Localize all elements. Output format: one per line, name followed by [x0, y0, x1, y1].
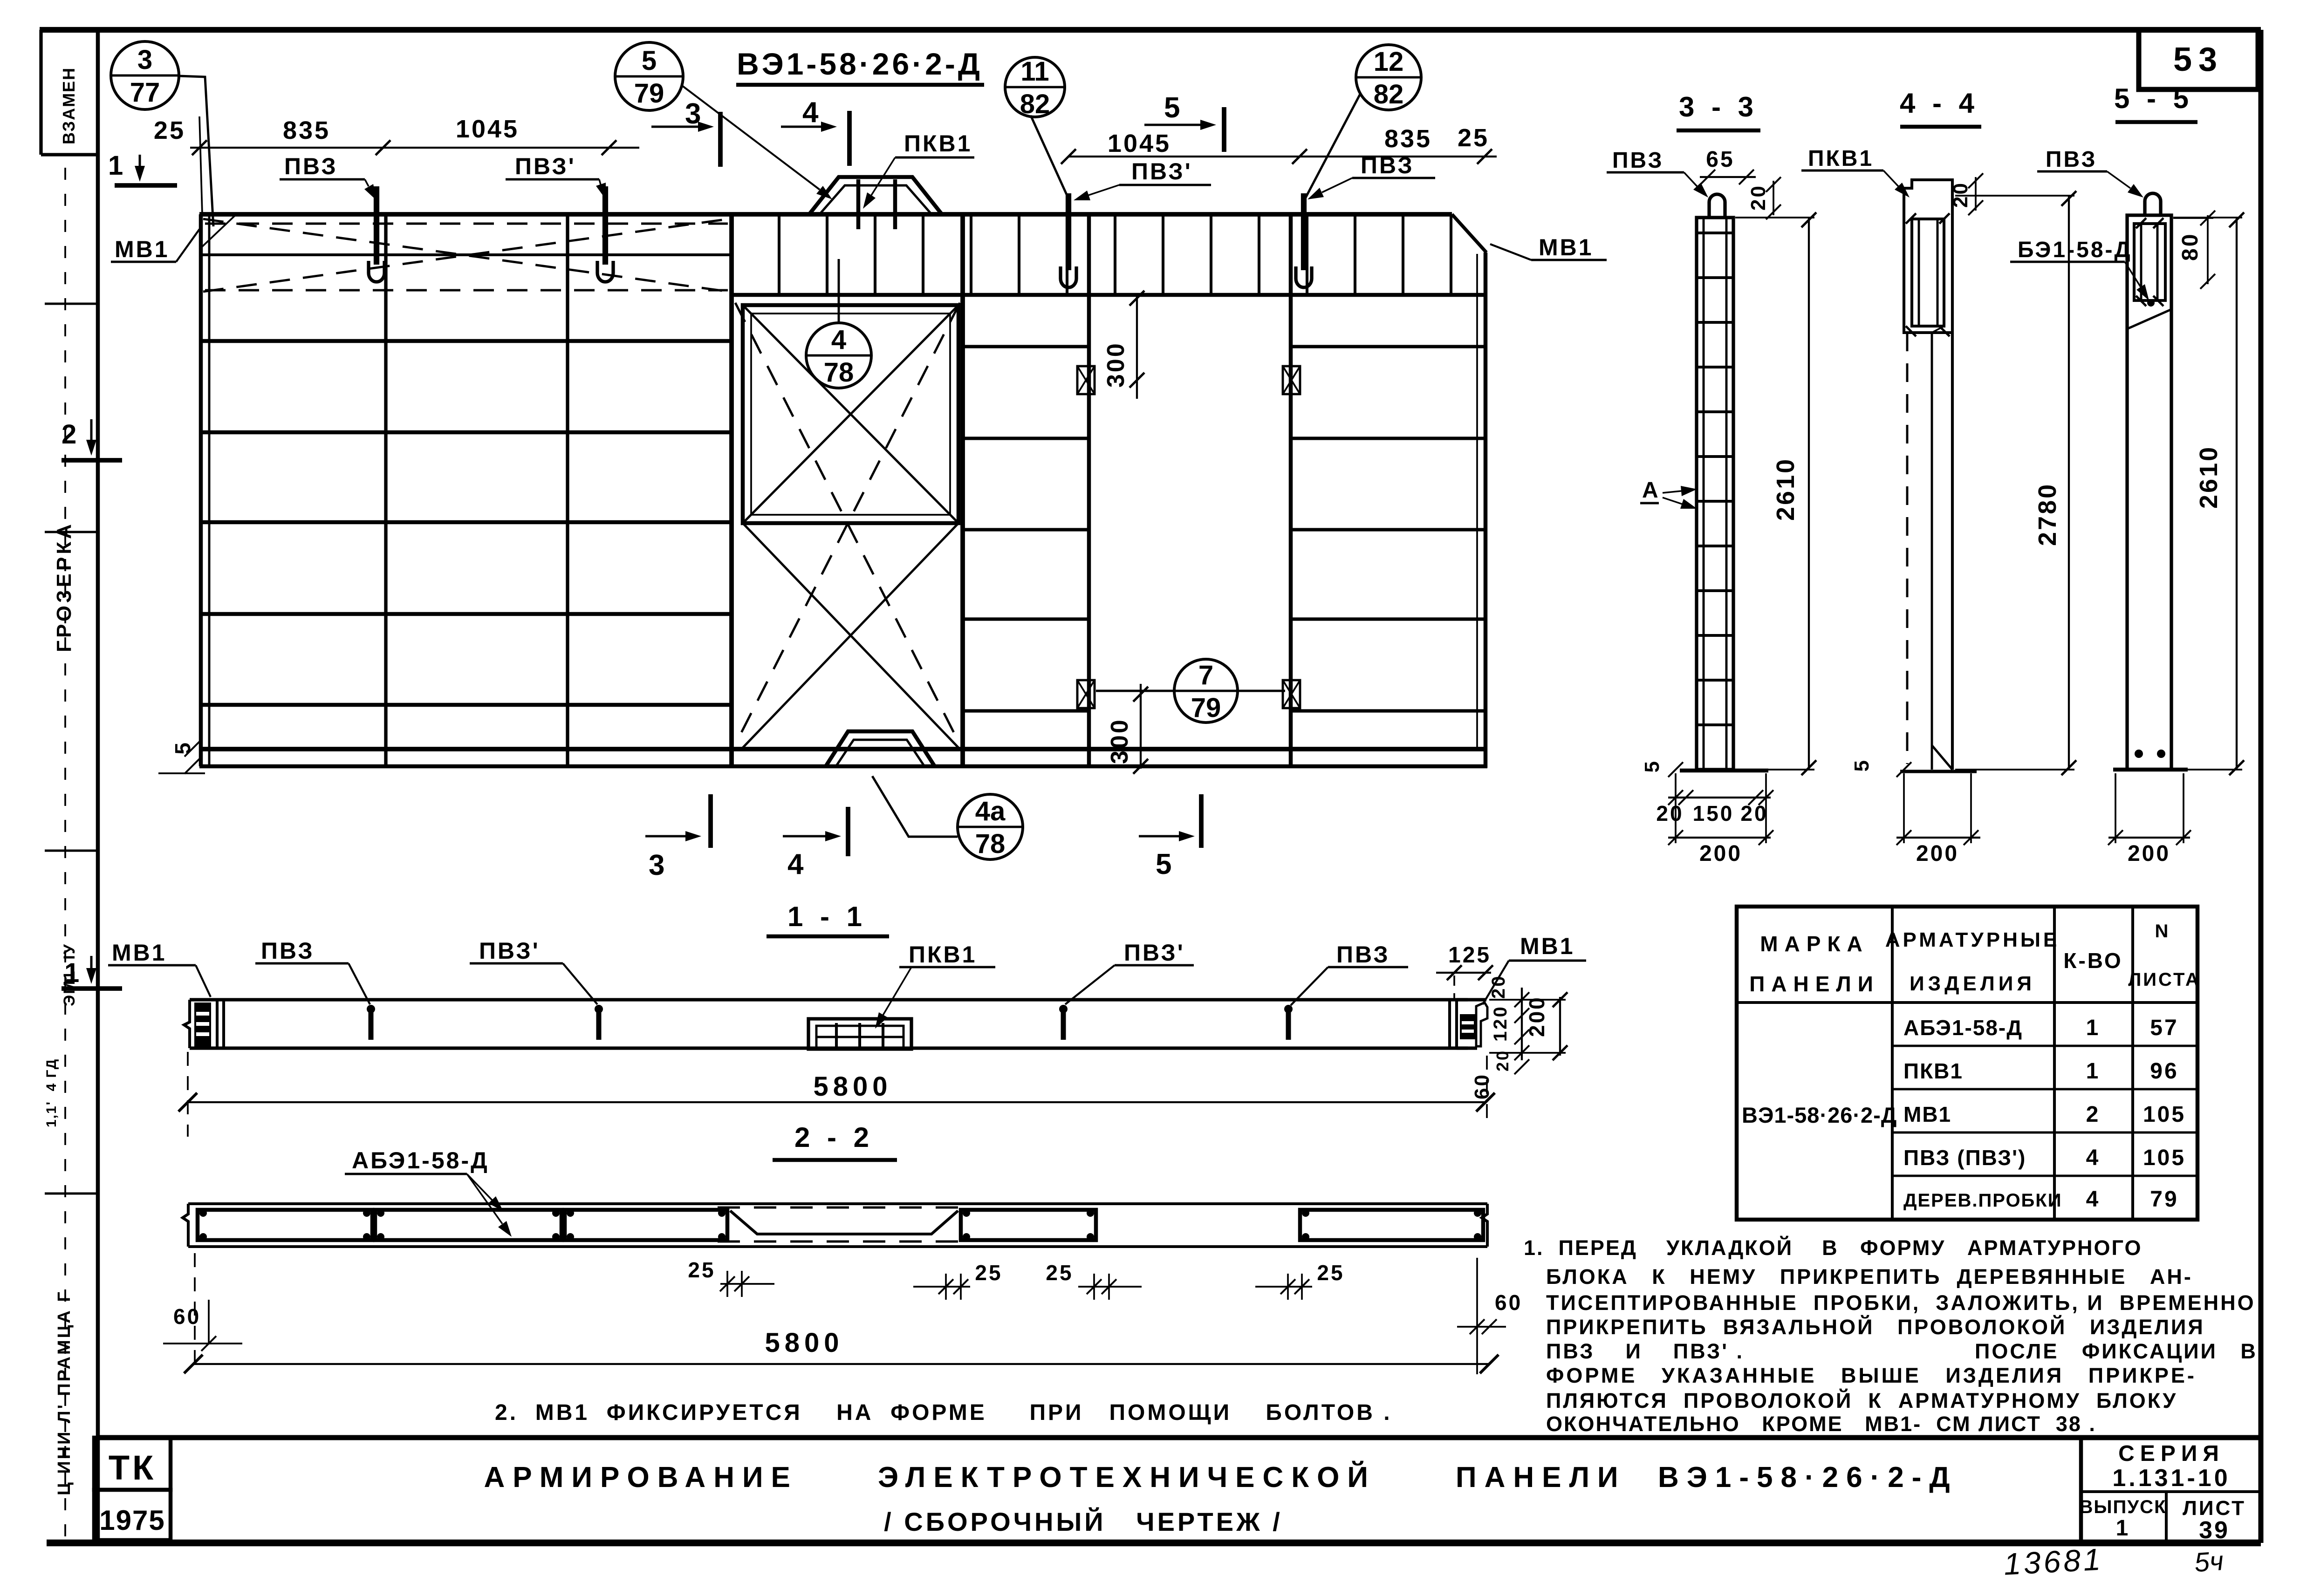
panel left edge inner — [208, 215, 211, 765]
wooden plug symbol — [1283, 366, 1300, 394]
callout 12/82 — [1356, 45, 1421, 110]
table row line 2338 — [1892, 1088, 2197, 1091]
svg-text:N: N — [2155, 921, 2170, 941]
bar 2-2 left cap — [183, 1204, 188, 1247]
svg-text:ТИСЕПТИРОВАННЫЕ ПРОБКИ, ЗАЛО: ТИСЕПТИРОВАННЫЕ ПРОБКИ, ЗАЛОЖИТЬ, И ВРЕМ… — [1546, 1291, 2256, 1315]
MV1 anchor right — [1460, 1014, 1476, 1039]
stirrup — [922, 216, 924, 294]
wooden plug symbol — [1283, 680, 1300, 708]
svg-text:ИЗДЕЛИЯ: ИЗДЕЛИЯ — [1910, 972, 2035, 995]
margin dashed line — [64, 168, 66, 1537]
svg-text:4: 4 — [2086, 1146, 2101, 1170]
svg-text:К-ВО: К-ВО — [2063, 948, 2122, 973]
svg-text:7: 7 — [1198, 660, 1213, 690]
MV1 flag right — [1476, 1003, 1487, 1046]
table col line 1 — [1891, 907, 1894, 1220]
border top — [40, 27, 2261, 33]
leader 12/82 — [1305, 93, 1361, 199]
svg-text:МВ1: МВ1 — [1520, 933, 1575, 959]
svg-text:25: 25 — [688, 1258, 715, 1282]
svg-text:79: 79 — [1191, 693, 1221, 723]
svg-text:ПВЗ И ПВЗ' .: ПВЗ И ПВЗ' . ПОСЛЕ ФИКСАЦИИ В — [1546, 1339, 2258, 1363]
svg-text:57: 57 — [2150, 1016, 2178, 1040]
dim tick — [376, 140, 390, 155]
svg-text:ВЭ1-58·26·2-Д: ВЭ1-58·26·2-Д — [737, 47, 983, 81]
svg-text:1045: 1045 — [1108, 130, 1171, 157]
svg-text:5800: 5800 — [813, 1071, 892, 1102]
left grid bar y1318 — [202, 612, 732, 616]
divider center/right1 — [960, 215, 965, 768]
top dim line left — [190, 147, 639, 149]
grid right y941 — [1291, 437, 1484, 440]
margin tick — [45, 303, 98, 305]
left grid bar y928 — [202, 430, 732, 435]
leader 11/82 — [1031, 116, 1068, 198]
svg-text:4: 4 — [831, 325, 846, 355]
bar 1-1 left double 2 — [222, 1000, 225, 1048]
svg-text:Ц ИНИ Л' ПРАМЦА Г: Ц ИНИ Л' ПРАМЦА Г — [55, 1290, 74, 1495]
svg-text:ПАНЕЛИ: ПАНЕЛИ — [1749, 972, 1880, 996]
svg-text:ПКВ1: ПКВ1 — [904, 130, 972, 157]
column 4-4 right lower — [1951, 333, 1954, 770]
column 5-5 outer — [2127, 215, 2171, 770]
svg-text:3 - 3: 3 - 3 — [1679, 91, 1758, 123]
panel top-right chamfer — [1452, 214, 1486, 252]
leader 4/78 — [838, 259, 840, 323]
bar 1-1 right double 2 — [1455, 1000, 1458, 1048]
rebar box 424 — [198, 1210, 372, 1240]
svg-text:2. МВ1 ФИКСИРУЕТСЯ НА ФО: 2. МВ1 ФИКСИРУЕТСЯ НА ФОРМЕ ПРИ ПОМОЩИ Б… — [495, 1400, 1392, 1425]
dip dashed bottom — [718, 1241, 965, 1243]
sheet no box — [2139, 30, 2258, 89]
svg-text:25: 25 — [154, 116, 185, 144]
svg-text:2610: 2610 — [2195, 445, 2223, 509]
center dashed diagonal 2 — [735, 303, 960, 744]
svg-text:25: 25 — [1458, 124, 1489, 152]
column 4-4 left lower — [1931, 333, 1933, 770]
lower solid diagonal 2 — [743, 523, 958, 748]
svg-text:60: 60 — [173, 1304, 201, 1329]
border right — [2259, 30, 2264, 1543]
vertical bar right1 — [1087, 215, 1091, 768]
ext 5800 right — [1486, 1056, 1488, 1127]
svg-text:5 - 5: 5 - 5 — [2114, 83, 2193, 114]
svg-text:5: 5 — [1164, 92, 1182, 124]
svg-text:ЛИСТА: ЛИСТА — [2128, 969, 2201, 990]
grid right y1526 — [1291, 709, 1484, 712]
svg-text:1045: 1045 — [456, 115, 519, 143]
svg-text:ПВЗ: ПВЗ — [261, 938, 315, 964]
grid right y744 — [1291, 345, 1484, 348]
left dashed diagonal 2 — [203, 219, 729, 292]
svg-text:5: 5 — [171, 741, 195, 755]
svg-text:53: 53 — [2173, 41, 2224, 78]
border bottom — [47, 1540, 2261, 1547]
window diagonal 1 — [743, 305, 958, 523]
TK box — [94, 1438, 171, 1490]
lower solid diagonal 1 — [743, 523, 958, 748]
stirrup — [778, 216, 780, 294]
svg-text:96: 96 — [2150, 1059, 2178, 1084]
center window outer — [743, 305, 958, 523]
cage 5-5 — [2134, 224, 2165, 300]
svg-text:ПВЗ': ПВЗ' — [515, 153, 576, 179]
title block top line — [98, 1435, 2261, 1440]
PKV1 box bar — [858, 1023, 861, 1048]
svg-text:200: 200 — [1699, 841, 1742, 866]
svg-text:3: 3 — [137, 45, 152, 75]
rung 3-3 — [1698, 366, 1732, 368]
dim tick — [602, 140, 616, 155]
svg-text:835: 835 — [283, 116, 330, 144]
callout 3/77 — [111, 41, 179, 109]
panel right edge inner — [1476, 254, 1478, 748]
rebar box 805 — [375, 1210, 561, 1240]
callout 4a/78 — [958, 794, 1023, 859]
svg-text:ВЭ1-58·26·2-Д: ВЭ1-58·26·2-Д — [1742, 1103, 1897, 1127]
hook U right1 — [1061, 266, 1076, 287]
svg-text:80: 80 — [2178, 232, 2203, 261]
bar 1-1 left double 1 — [216, 1000, 219, 1048]
svg-text:ПВЗ: ПВЗ — [284, 153, 338, 179]
svg-text:25: 25 — [1046, 1261, 1073, 1285]
svg-text:ПВЗ': ПВЗ' — [479, 938, 540, 964]
svg-text:2610: 2610 — [1772, 457, 1800, 521]
svg-text:ВЫПУСК: ВЫПУСК — [2080, 1497, 2167, 1517]
svg-text:СЕРИЯ: СЕРИЯ — [2118, 1441, 2225, 1466]
svg-text:2: 2 — [2086, 1102, 2101, 1127]
svg-text:4 - 4: 4 - 4 — [1900, 88, 1979, 119]
svg-text:2 - 2: 2 - 2 — [794, 1122, 874, 1153]
svg-text:АБЭ1-58-Д: АБЭ1-58-Д — [352, 1147, 489, 1173]
svg-text:1. ПЕРЕД УКЛАДКОЙ В Ф: 1. ПЕРЕД УКЛАДКОЙ В ФОРМУ АРМАТУРНОГО — [1524, 1236, 2142, 1260]
column 3-3 inner left — [1703, 218, 1705, 769]
trapezoid PKV1 inner — [819, 185, 932, 215]
panel top edge — [199, 212, 1452, 217]
rung 3-3 — [1698, 410, 1732, 413]
svg-text:5: 5 — [1850, 758, 1873, 771]
rung 3-3 — [1698, 455, 1732, 458]
PKV1 box bar — [882, 1023, 884, 1048]
stirrup — [1354, 216, 1356, 294]
bar 2-2 right cap — [1482, 1204, 1487, 1247]
svg-text:3: 3 — [649, 849, 666, 881]
svg-text:5: 5 — [642, 46, 657, 76]
dim tick — [1061, 149, 1076, 164]
svg-text:65: 65 — [1706, 147, 1734, 172]
hook bar PV3' right — [1066, 193, 1071, 270]
dim line 5800 2-2 — [193, 1363, 1489, 1365]
rebar box 2062 — [961, 1210, 1096, 1240]
PKV1 box mid line — [816, 1036, 904, 1038]
svg-text:105: 105 — [2143, 1146, 2186, 1170]
stirrup — [1306, 216, 1308, 294]
dim line 2780 — [2068, 196, 2070, 770]
panel left edge outer — [199, 214, 203, 766]
trapezoid PKV1 outer — [808, 177, 943, 215]
hook PV3' on 1-1 — [596, 1007, 602, 1040]
svg-text:ПВЗ: ПВЗ — [1336, 941, 1390, 968]
band bottom chord — [732, 293, 1484, 297]
leader 5/79 — [682, 86, 820, 190]
rung 3-3 — [1698, 500, 1732, 503]
rung 3-3 — [1698, 276, 1732, 279]
panel right edge — [1484, 252, 1488, 768]
wooden plug symbol — [1077, 680, 1095, 708]
border left frame — [96, 30, 100, 1543]
rebar box 2790 — [1300, 1210, 1483, 1240]
table col line 3 — [2131, 907, 2134, 1220]
svg-text:1975: 1975 — [99, 1505, 165, 1536]
svg-text:13681: 13681 — [2003, 1541, 2104, 1581]
svg-text:1.131-10: 1.131-10 — [2112, 1465, 2230, 1492]
ext 5800 2-2 left — [194, 1253, 196, 1370]
stirrup — [1066, 216, 1068, 294]
baseline 4-4 — [1900, 770, 1977, 773]
stirrup — [1018, 216, 1020, 294]
rebar box 1212 — [565, 1210, 727, 1240]
panel bottom chord — [199, 747, 1485, 751]
divider left/center — [729, 214, 734, 768]
svg-text:150: 150 — [1693, 801, 1734, 825]
svg-text:АБЭ1-58-Д: АБЭ1-58-Д — [1903, 1016, 2023, 1040]
svg-text:ДЕРЕВ.ПРОБКИ: ДЕРЕВ.ПРОБКИ — [1903, 1190, 2062, 1211]
svg-text:20: 20 — [1949, 181, 1972, 208]
svg-text:200: 200 — [1525, 996, 1549, 1037]
svg-text:МВ1: МВ1 — [112, 940, 167, 966]
dip trapezoid 2-2 — [730, 1211, 958, 1234]
baseline 3-3 — [1680, 769, 1768, 773]
svg-text:300: 300 — [1102, 341, 1129, 388]
dim ext left — [199, 116, 202, 214]
left grid bar y1121 — [202, 520, 732, 525]
svg-text:1: 1 — [2086, 1016, 2101, 1040]
svg-text:4: 4 — [802, 96, 820, 129]
svg-text:ЛИСТ: ЛИСТ — [2183, 1497, 2246, 1520]
svg-text:5: 5 — [1156, 848, 1173, 880]
rung 3-3 — [1698, 545, 1732, 547]
svg-text:ПВЗ': ПВЗ' — [1131, 158, 1192, 184]
table row line 2245 — [1892, 1045, 2197, 1047]
dim 300 upper line — [1136, 296, 1138, 399]
svg-text:82: 82 — [1374, 79, 1404, 109]
hook sec5 — [2145, 193, 2161, 216]
hook PV3 on 1-1 — [369, 1007, 374, 1040]
cage 4-4 — [1912, 219, 1944, 326]
left dashed bottom — [205, 289, 728, 292]
svg-text:11: 11 — [1020, 56, 1049, 87]
ext 2780 top — [1955, 195, 2074, 197]
bar 2-2 bottom — [188, 1245, 1487, 1248]
PKV1 box bar — [835, 1023, 838, 1048]
vertical bar right2 — [1289, 215, 1293, 768]
svg-text:835: 835 — [1384, 125, 1432, 153]
dim line 5800 1-1 — [188, 1101, 1486, 1103]
bottom notch inner — [836, 740, 924, 766]
column 3-3 outer — [1697, 218, 1733, 770]
svg-text:1: 1 — [2086, 1059, 2101, 1084]
svg-text:АРМАТУРНЫЕ: АРМАТУРНЫЕ — [1885, 928, 2060, 951]
table header line — [1737, 1001, 2197, 1004]
column 3-3 inner right — [1725, 218, 1728, 769]
ext 3-3 right — [1765, 773, 1767, 843]
MV1 anchor left — [194, 1003, 211, 1047]
title underline — [736, 83, 984, 87]
top dim line right — [1068, 156, 1497, 157]
series box left line — [2079, 1438, 2083, 1543]
vypusk/list divider — [2165, 1492, 2168, 1543]
grid right y1137 — [1291, 528, 1484, 531]
svg-text:А: А — [1642, 478, 1660, 503]
ext right 1-1 a — [1489, 999, 1566, 1001]
hook bar PV3 left — [374, 186, 379, 265]
callout 4/78 — [806, 323, 871, 388]
svg-text:82: 82 — [1020, 89, 1050, 119]
bar 1-1 top — [224, 998, 1468, 1001]
svg-text:120: 120 — [1490, 1005, 1511, 1042]
ext 2610 top — [1735, 217, 1814, 218]
left grid bar y1513 — [202, 703, 732, 707]
dim line 2610 sec3 — [1808, 218, 1810, 770]
svg-text:ТК: ТК — [109, 1448, 156, 1487]
margin tick — [45, 531, 98, 533]
bar 1-1 bottom — [224, 1046, 1468, 1050]
callout 5/79 — [615, 42, 683, 110]
hook U right2 — [1296, 266, 1312, 287]
svg-text:1: 1 — [64, 958, 81, 988]
dim line 2610 sec5 — [2236, 218, 2238, 770]
dim tick — [192, 140, 207, 155]
PKV1 box 1-1 — [808, 1019, 911, 1049]
stirrup — [826, 216, 828, 294]
center dashed diagonal 1 — [735, 303, 960, 744]
rung 3-3 — [1698, 634, 1732, 637]
svg-text:105: 105 — [2143, 1102, 2186, 1127]
center window inner — [751, 314, 950, 515]
svg-text:20: 20 — [1740, 801, 1768, 825]
stirrup — [1210, 216, 1212, 294]
svg-text:200: 200 — [2128, 841, 2170, 866]
svg-text:ПКВ1: ПКВ1 — [1903, 1059, 1963, 1083]
svg-text:5: 5 — [1641, 759, 1663, 772]
svg-text:39: 39 — [2199, 1517, 2230, 1544]
grid right y1329 — [1291, 617, 1484, 621]
svg-text:ПВЗ: ПВЗ — [1612, 148, 1664, 173]
dip dashed top — [718, 1207, 965, 1209]
svg-text:ГРОЗЕРКА: ГРОЗЕРКА — [53, 521, 75, 652]
stirrup — [1258, 216, 1260, 294]
foot diagonal 4-4 — [1932, 745, 1952, 770]
dim tick — [1292, 149, 1307, 164]
svg-text:МВ1: МВ1 — [1903, 1102, 1951, 1126]
margin tick — [45, 850, 98, 852]
dim 300 lower line — [1140, 684, 1142, 769]
svg-text:1,1' 4 ГД: 1,1' 4 ГД — [44, 1058, 59, 1127]
svg-text:ПЛЯЮТСЯ ПРОВОЛОКОЙ К АРМАТУ: ПЛЯЮТСЯ ПРОВОЛОКОЙ К АРМАТУРНОМУ БЛОКУ — [1546, 1389, 2177, 1412]
slant 5-5 — [2127, 309, 2171, 329]
table col line 2 — [2053, 907, 2056, 1220]
hook bar PV3 right — [1301, 193, 1307, 270]
hook bar PV3' left — [602, 186, 608, 265]
left vertical bar 1 — [384, 215, 387, 766]
svg-text:1: 1 — [108, 150, 125, 181]
grid mid y1526 — [963, 709, 1089, 712]
svg-text:125: 125 — [1448, 943, 1491, 968]
svg-text:ОКОНЧАТЕЛЬНО КРОМЕ МВ1- С: ОКОНЧАТЕЛЬНО КРОМЕ МВ1- СМ ЛИСТ 38 . — [1546, 1412, 2096, 1436]
panel top-left chamfer — [199, 215, 235, 249]
svg-text:300: 300 — [1106, 718, 1133, 764]
rung 3-3 — [1698, 232, 1732, 234]
left grid top chord — [202, 253, 732, 256]
svg-text:2780: 2780 — [2033, 483, 2061, 546]
stirrup — [1402, 216, 1404, 294]
left grid bar y732 — [202, 339, 732, 343]
series divider — [2081, 1490, 2261, 1493]
svg-text:2: 2 — [62, 419, 78, 450]
svg-text:1: 1 — [2116, 1516, 2130, 1541]
PKV1 box inner — [816, 1026, 904, 1048]
table outline — [1737, 907, 2197, 1220]
bottom notch outer — [826, 731, 935, 766]
svg-text:78: 78 — [824, 357, 854, 388]
svg-text:МВ1: МВ1 — [1539, 234, 1594, 260]
svg-text:20: 20 — [1488, 975, 1509, 999]
svg-text:БЭ1-58-Д: БЭ1-58-Д — [2018, 238, 2132, 262]
dashed edge 4-4 — [1906, 333, 1909, 764]
left dashed diagonal 1 — [203, 219, 729, 292]
stirrup — [970, 216, 972, 294]
svg-text:77: 77 — [130, 77, 160, 108]
trapezoid bar 2 — [893, 179, 897, 229]
baseline 5-5 — [2113, 768, 2188, 772]
svg-text:5800: 5800 — [765, 1328, 843, 1358]
window diagonal 2 — [743, 305, 958, 523]
stirrup — [1450, 216, 1452, 294]
hook sec3 — [1709, 194, 1725, 216]
svg-text:МАРКА: МАРКА — [1760, 932, 1869, 956]
svg-text:1 - 1: 1 - 1 — [787, 901, 867, 932]
svg-text:60: 60 — [1471, 1073, 1493, 1099]
dim line right 1-1 — [1521, 988, 1523, 1060]
stirrup — [1114, 216, 1116, 294]
rung 3-3 — [1698, 321, 1732, 324]
grid mid y744 — [963, 345, 1089, 348]
ext 3-3 left — [1675, 773, 1677, 843]
svg-text:ПВЗ': ПВЗ' — [1124, 940, 1185, 966]
hook PV3' on 1-1 — [1061, 1007, 1066, 1040]
section 4-4 top shape — [1904, 180, 1952, 333]
bar 1-1 right double 1 — [1448, 1000, 1451, 1048]
leader 3/77 — [179, 76, 213, 226]
left vertical bar 2 — [566, 215, 569, 766]
grid mid y1137 — [963, 528, 1089, 531]
wooden plug symbol — [1077, 366, 1095, 394]
svg-text:ПВЗ: ПВЗ — [2046, 147, 2097, 172]
trapezoid bar 1 — [856, 179, 861, 229]
leader 4a/78 — [872, 776, 958, 837]
svg-text:4а: 4а — [975, 796, 1006, 826]
rung 3-3 — [1698, 589, 1732, 592]
svg-text:60: 60 — [1495, 1290, 1522, 1315]
grid mid y941 — [963, 437, 1089, 440]
svg-text:БЛОКА К НЕМУ ПРИКРЕПИТЬ: БЛОКА К НЕМУ ПРИКРЕПИТЬ ДЕРЕВЯННЫЕ АН- — [1546, 1265, 2193, 1289]
svg-text:79: 79 — [2150, 1187, 2178, 1212]
bar 2-2 top — [188, 1202, 1487, 1205]
1975 box — [94, 1490, 171, 1540]
svg-text:ПКВ1: ПКВ1 — [909, 941, 977, 968]
rung 3-3 — [1698, 723, 1732, 726]
svg-text:200: 200 — [1916, 841, 1959, 866]
